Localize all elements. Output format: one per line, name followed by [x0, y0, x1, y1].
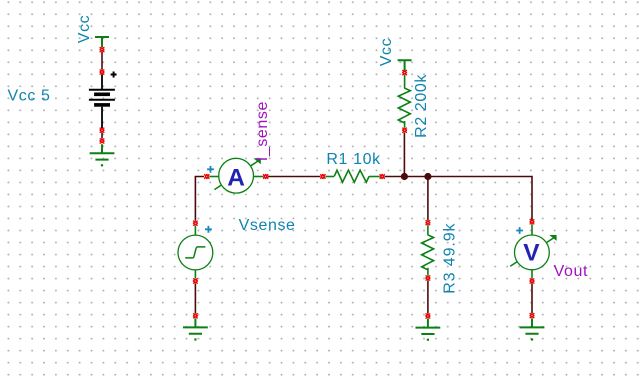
- source VS1 bottom lead: [194, 270, 196, 279]
- voltmeter arrow: [510, 235, 556, 266]
- svg-text:Vcc: Vcc: [76, 15, 93, 43]
- resistor R1 right pin crosses: [380, 174, 385, 179]
- battery B1 top lead: [101, 74, 103, 89]
- ammeter arrow: [214, 158, 260, 189]
- voltmeter bottom pin crosses: [530, 279, 535, 284]
- wire battery top: [101, 52, 103, 70]
- wire R3 to ground: [427, 280, 429, 313]
- voltmeter plus sign: [516, 227, 523, 234]
- ammeter AM1 circle: [219, 158, 254, 193]
- svg-text:Vcc: Vcc: [378, 38, 395, 66]
- ammeter right pin crosses: [263, 174, 268, 179]
- svg-text:R2 200k: R2 200k: [413, 74, 430, 138]
- ground pin crosses below R3: [426, 314, 431, 319]
- voltmeter top pin crosses: [530, 219, 535, 224]
- source VS1 bottom pin crosses: [193, 279, 198, 284]
- svg-text:R1 10k: R1 10k: [326, 151, 381, 168]
- wire ammeter to R1: [268, 176, 320, 178]
- battery B1 upper pin crosses: [100, 70, 105, 75]
- resistor R2 top lead: [404, 75, 406, 88]
- ammeter left pin crosses: [204, 174, 209, 179]
- resistor R3 zigzag: [422, 235, 434, 270]
- resistor R3 bottom lead: [427, 268, 429, 276]
- source VS1 circle: [178, 235, 213, 270]
- Vcc rail symbol above R2: [398, 60, 412, 70]
- ammeter left lead: [209, 176, 218, 178]
- resistor R3 bottom pin crosses: [426, 276, 431, 281]
- ammeter right lead: [254, 176, 264, 178]
- ground below voltmeter: [520, 318, 545, 340]
- svg-text:Vout: Vout: [554, 263, 588, 280]
- svg-text:Vsense: Vsense: [239, 217, 296, 234]
- wire R1 to voltmeter corner: [385, 177, 532, 221]
- battery B1 top pin crosses: [100, 47, 105, 52]
- ground below R3: [416, 319, 441, 341]
- resistor R1 zigzag: [334, 170, 369, 182]
- ground below battery: [90, 144, 115, 166]
- battery B1 bottom pin crosses: [100, 128, 105, 133]
- ammeter plus sign: [207, 166, 214, 173]
- svg-text:V: V: [523, 240, 540, 267]
- battery B1 bottom lead: [101, 107, 103, 128]
- svg-text:I_sense: I_sense: [254, 101, 271, 161]
- node junction dot at R3: [424, 173, 431, 180]
- battery B1 plates: [89, 90, 115, 105]
- resistor R2 bottom pin crosses: [402, 128, 407, 133]
- source VS1 top lead: [194, 226, 196, 236]
- source VS1 step waveform: [185, 247, 205, 258]
- node junction dot at R2: [401, 173, 408, 180]
- voltmeter bottom lead: [531, 270, 533, 279]
- resistor R2 top pin crosses: [402, 70, 407, 75]
- ground below VS1: [183, 318, 208, 340]
- resistor R1 left pin crosses: [321, 174, 326, 179]
- wire voltmeter to ground: [531, 283, 533, 313]
- voltmeter VM1 circle: [515, 235, 550, 270]
- source VS1 top pin crosses: [193, 221, 198, 226]
- wire from ammeter left pin down to source VS1: [195, 177, 204, 221]
- ground pin crosses below VS1: [193, 313, 198, 318]
- wire battery bottom: [101, 133, 103, 139]
- wire R2 to junction: [403, 133, 405, 177]
- wire junction to R3: [427, 177, 429, 221]
- wire VS1 to ground: [194, 283, 196, 313]
- resistor R1 right lead: [369, 176, 380, 178]
- resistor R2 bottom lead: [404, 121, 406, 128]
- resistor R1 left lead: [325, 176, 334, 178]
- source VS1 plus sign: [205, 226, 212, 233]
- svg-text:R3 49.9k: R3 49.9k: [442, 222, 459, 293]
- resistor R3 top pin crosses: [426, 220, 431, 225]
- ground pin crosses below voltmeter: [530, 313, 535, 318]
- svg-text:Vcc 5: Vcc 5: [8, 88, 51, 105]
- voltmeter top lead: [531, 224, 533, 235]
- ground pin crosses below battery: [100, 139, 105, 144]
- resistor R2 zigzag: [398, 88, 410, 123]
- battery B1 Vcc rail symbol: [95, 37, 109, 47]
- svg-text:A: A: [227, 164, 245, 191]
- battery B1 plus sign: [111, 72, 117, 78]
- resistor R3 top lead: [427, 225, 429, 235]
